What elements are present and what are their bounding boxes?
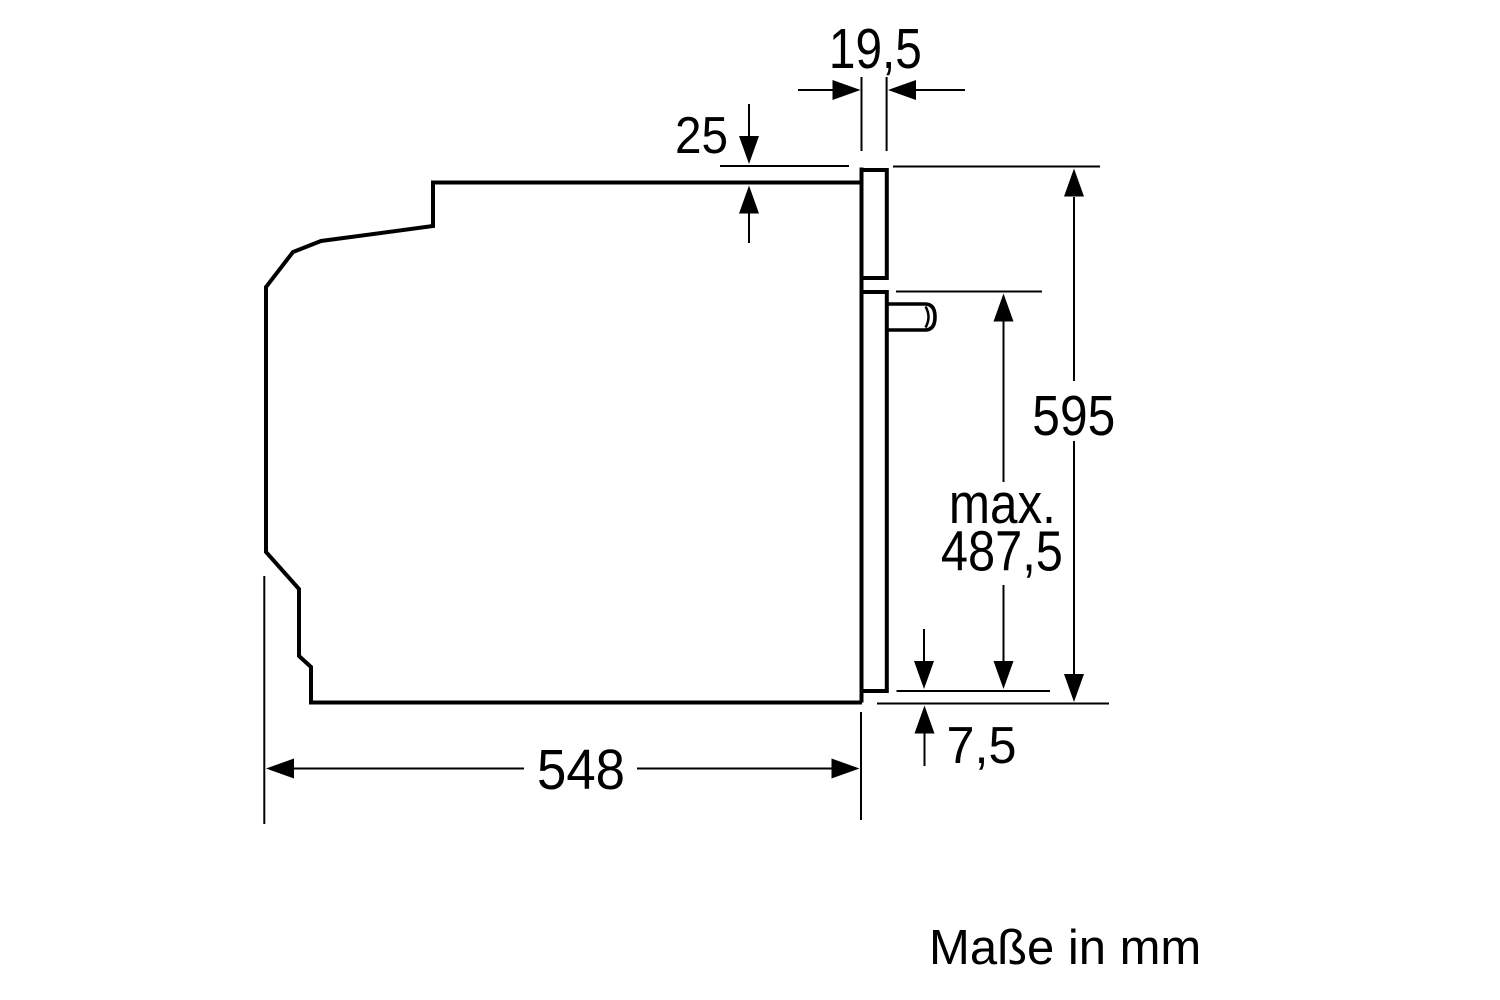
- dimension 595 top arrowhead: [1064, 169, 1084, 197]
- door hinge cylinder: [888, 304, 935, 330]
- svg-text:595: 595: [1032, 384, 1115, 448]
- oven front plane vertical strip: [860, 168, 864, 703]
- dimension 548 left arrowhead: [266, 759, 294, 779]
- svg-text:487,5: 487,5: [941, 520, 1063, 584]
- dimension 19,5 right arrow: [914, 89, 965, 91]
- dimension 25 extension line: [720, 165, 849, 167]
- dimension 595 bottom arrowhead: [1064, 674, 1084, 702]
- dimension 595 line lower segment: [1073, 441, 1075, 674]
- oven door rectangle: [860, 292, 887, 691]
- dimension 25 up arrow: [739, 186, 759, 214]
- dimension 19,5 extension line right: [886, 77, 888, 151]
- svg-text:19,5: 19,5: [829, 17, 922, 81]
- dimension 548 left extension line: [263, 576, 265, 824]
- dimension 595 top extension line: [893, 166, 1100, 168]
- svg-text:Maße in mm: Maße in mm: [929, 921, 1201, 975]
- dimension 7,5 down arrow: [923, 629, 925, 662]
- dimension 7,5 up arrow: [915, 706, 935, 734]
- dimension 548 right extension line: [860, 712, 862, 820]
- dimension max 487,5 top extension line: [896, 291, 1042, 293]
- dimension 487,5 line upper segment: [1003, 321, 1005, 482]
- oven body outline: [266, 183, 862, 703]
- hinge cylinder end-cap arc: [926, 307, 929, 328]
- control panel rectangle: [860, 170, 887, 278]
- dimension 548 line left segment: [292, 768, 524, 770]
- svg-text:7,5: 7,5: [947, 717, 1017, 775]
- body bottom extension line: [877, 703, 1109, 705]
- door bottom extension line: [897, 690, 1051, 692]
- dimension 548 line right segment: [637, 768, 833, 770]
- svg-text:25: 25: [675, 107, 728, 165]
- dimension 19,5 extension line left: [861, 77, 863, 151]
- dimension 19,5 left arrow: [798, 89, 834, 91]
- dimension 487,5 line lower segment: [1003, 585, 1005, 662]
- svg-text:548: 548: [537, 738, 625, 802]
- dimension 595 line upper segment: [1073, 197, 1075, 381]
- dimension 487,5 bottom arrowhead: [994, 661, 1014, 689]
- dimension 548 right arrowhead: [832, 759, 860, 779]
- dimension 25 down arrow: [748, 104, 750, 138]
- dimension 487,5 top arrowhead: [994, 294, 1014, 322]
